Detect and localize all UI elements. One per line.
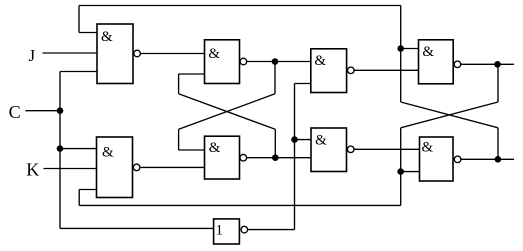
svg-text:&: & <box>102 144 114 160</box>
svg-text:&: & <box>208 46 220 62</box>
svg-text:&: & <box>209 140 221 156</box>
svg-text:&: & <box>422 44 434 60</box>
svg-text:C: C <box>9 102 21 122</box>
svg-text:&: & <box>314 53 326 69</box>
svg-text:&: & <box>101 29 113 45</box>
svg-text:K: K <box>26 160 39 180</box>
svg-text:&: & <box>422 140 434 156</box>
svg-text:1: 1 <box>216 222 224 238</box>
svg-text:&: & <box>315 133 327 149</box>
svg-text:J: J <box>29 46 36 65</box>
